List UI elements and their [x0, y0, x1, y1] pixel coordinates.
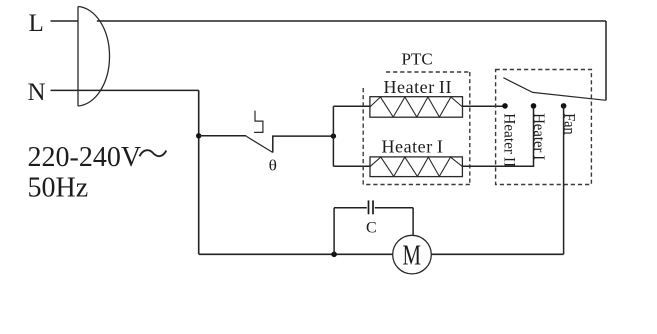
heater R2 Heater I: body rectangle — [370, 157, 462, 177]
svg-text:Heater I: Heater I — [382, 137, 444, 157]
thermostat switch theta: bimetal actuator symbol — [254, 111, 263, 133]
capacitor C1 plates — [369, 200, 374, 214]
svg-text:θ: θ — [269, 158, 277, 175]
svg-text:220-240V: 220-240V — [28, 142, 142, 173]
heater R1 Heater II: body rectangle — [370, 97, 463, 118]
wire J1 to thermostat — [199, 135, 247, 137]
node D1 contact dot (Heater II) — [502, 103, 508, 109]
PTC enclosure (dashed box, open top-left corner) — [363, 72, 470, 185]
wire N vertical down to bottom rail — [198, 90, 200, 254]
svg-text:PTC: PTC — [402, 50, 433, 69]
wire Heater II output — [463, 105, 506, 107]
wire capacitor branch left riser — [333, 208, 335, 255]
svg-text:M: M — [403, 240, 422, 271]
thermostat switch theta: blade — [246, 136, 272, 152]
svg-text:L: L — [29, 10, 44, 37]
node D2 contact dot (Heater I) — [531, 103, 537, 109]
wire capacitor branch top right — [375, 207, 413, 209]
wire N terminal stub — [51, 89, 79, 91]
svg-text:Heater I: Heater I — [530, 113, 547, 160]
node D3 contact dot (Fan) — [561, 103, 567, 109]
wire Fan contact down to bottom rail — [563, 106, 565, 254]
svg-text:C: C — [366, 219, 377, 236]
wire bottom rail left segment — [199, 253, 393, 255]
thermostat switch theta: fixed contact lead — [273, 136, 334, 152]
svg-text:50Hz: 50Hz — [28, 173, 89, 204]
svg-text:N: N — [28, 79, 46, 106]
selector switch wiper blade — [503, 78, 606, 101]
node J2 junction dot — [331, 133, 336, 138]
node J3 junction dot (capacitor tap) — [331, 252, 337, 258]
wire L terminal stub — [51, 20, 79, 22]
svg-text:Heater II: Heater II — [384, 77, 453, 97]
svg-text:Heater II: Heater II — [501, 113, 518, 167]
selector switch enclosure (dashed box) — [496, 70, 592, 185]
wire N main — [78, 89, 199, 91]
plug P1 (mains plug symbol) — [78, 7, 110, 107]
wire L main (to top right) — [97, 20, 606, 22]
wire J2 split vertical — [332, 106, 334, 166]
wire Heater I output with rise to selector — [462, 106, 533, 166]
wire capacitor branch top left — [334, 207, 367, 209]
heater R1 Heater II: zigzag element — [370, 97, 463, 117]
wire capacitor branch right drop to motor — [412, 208, 414, 236]
heater R2 Heater I: zigzag element — [370, 157, 462, 176]
node J1 junction dot — [196, 133, 201, 138]
wire feed to Heater II — [333, 105, 370, 107]
motor M1 circle — [393, 235, 432, 274]
wire bottom rail right segment — [431, 253, 563, 255]
wire feed to Heater I — [333, 165, 370, 167]
wire L drop on right — [605, 21, 607, 100]
supply label tilde wave — [140, 150, 167, 156]
